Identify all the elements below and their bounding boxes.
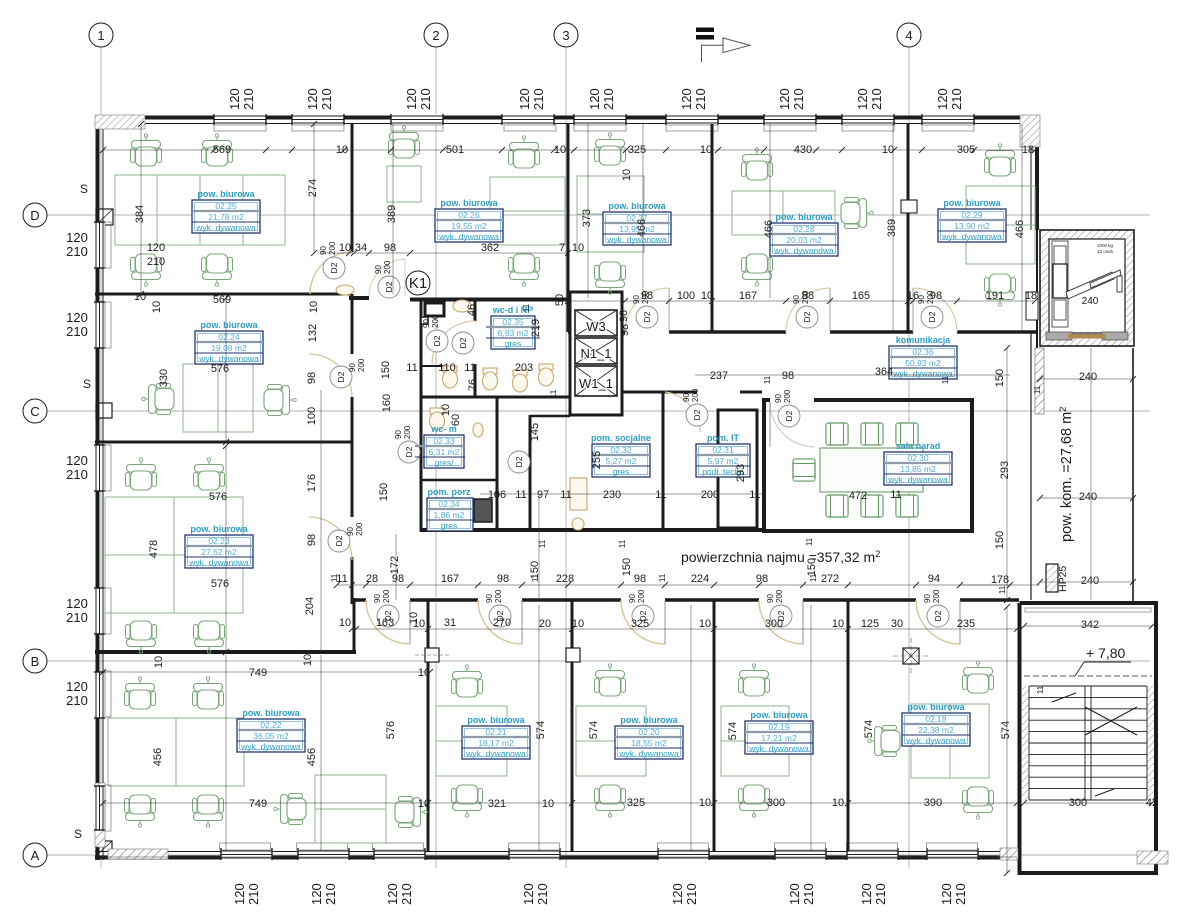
conf chair bottom 1 — [861, 495, 883, 517]
grid bubble 2 — [424, 23, 448, 47]
conf chair left — [793, 459, 815, 481]
pom. socjalne right wall — [662, 392, 665, 532]
svg-text:210: 210 — [418, 88, 433, 110]
chair 02.20 a — [595, 664, 626, 696]
desk group 02.24 — [183, 364, 253, 432]
conf chair top 1 — [861, 423, 883, 445]
door tag 02.20 door — [628, 589, 654, 627]
svg-text:94: 94 — [928, 573, 940, 585]
svg-text:574: 574 — [588, 721, 600, 739]
sink socjalne — [572, 518, 584, 530]
svg-text:210: 210 — [693, 88, 708, 110]
svg-text:11: 11 — [560, 489, 571, 501]
wall above 02.22 right leg — [353, 598, 356, 652]
comm right wall — [1132, 348, 1134, 604]
window bottom 7 — [847, 848, 898, 860]
sink lobby — [336, 285, 354, 295]
desk group 02.22 a — [108, 718, 244, 786]
svg-text:210: 210 — [66, 693, 88, 708]
svg-text:210: 210 — [601, 88, 616, 110]
sala narad walls — [764, 400, 972, 531]
elevator shaft walls — [1040, 230, 1134, 346]
desk group 02.29 — [966, 186, 1035, 264]
chair 02.26 b — [509, 254, 540, 286]
svg-text:240: 240 — [1079, 371, 1097, 383]
svg-text:S: S — [74, 827, 82, 841]
svg-text:330: 330 — [158, 369, 170, 387]
svg-text:5,97 m2: 5,97 m2 — [708, 456, 739, 466]
room label 02.30 — [884, 441, 952, 485]
corner hatch stair bottom right — [1137, 851, 1168, 864]
grid bubble 4 — [897, 23, 921, 47]
svg-text:98: 98 — [618, 310, 630, 322]
svg-text:389: 389 — [886, 219, 898, 237]
grid axis line C — [46, 410, 1150, 412]
svg-text:10: 10 — [621, 169, 633, 181]
svg-text:20,03 m2: 20,03 m2 — [786, 235, 822, 245]
chair 02.24 a — [142, 384, 174, 415]
comm strip hatch left — [1035, 348, 1044, 414]
svg-text:10: 10 — [302, 654, 314, 666]
svg-text:19,55 m2: 19,55 m2 — [451, 221, 487, 231]
svg-text:200: 200 — [383, 260, 392, 274]
svg-text:pow. biurowa: pow. biurowa — [197, 189, 255, 199]
svg-text:172: 172 — [389, 556, 401, 574]
svg-text:wyk. dywanowa: wyk. dywanowa — [240, 742, 301, 752]
corner hatch bottom-left vertical — [95, 783, 105, 847]
svg-text:120: 120 — [855, 88, 870, 110]
svg-text:K1: K1 — [409, 275, 427, 292]
chair 02.29 a — [985, 144, 1016, 176]
svg-text:11: 11 — [890, 489, 901, 501]
chair 02.26 c — [389, 126, 420, 158]
chair 02.22 b — [193, 677, 224, 709]
svg-text:10: 10 — [418, 798, 430, 810]
window bottom 2 — [298, 848, 349, 860]
svg-text:02.20: 02.20 — [638, 727, 660, 737]
svg-text:wyk. dywanowa: wyk. dywanowa — [188, 558, 249, 568]
wall wc-m|pom.porz — [421, 479, 497, 482]
chair 02.27 a — [595, 133, 626, 165]
sala narad door gap — [770, 396, 814, 404]
svg-text:98: 98 — [641, 290, 653, 302]
door tag wc-m — [394, 425, 420, 463]
svg-text:34: 34 — [355, 242, 367, 254]
svg-text:1: 1 — [97, 28, 104, 43]
chair 02.28 b — [742, 254, 773, 286]
conf chair bottom 2 — [896, 495, 918, 517]
svg-text:98: 98 — [782, 370, 794, 382]
chair 02.18 b — [963, 787, 994, 819]
svg-text:98: 98 — [384, 242, 396, 254]
svg-text:02.29: 02.29 — [961, 210, 983, 220]
svg-text:210: 210 — [869, 88, 884, 110]
north arrow — [696, 28, 750, 63]
door tag 02.22 door — [373, 589, 399, 627]
column 02.21 head — [566, 648, 580, 662]
corner hatch top-left — [95, 115, 145, 129]
svg-text:191: 191 — [986, 290, 1004, 302]
grid axis line A — [46, 854, 1150, 856]
svg-text:574: 574 — [727, 722, 739, 740]
door arc sala narad — [770, 402, 815, 447]
chair 02.27 b — [595, 262, 626, 294]
svg-text:384: 384 — [134, 205, 146, 223]
shaft W3 box — [575, 310, 617, 336]
svg-text:456: 456 — [152, 748, 164, 766]
svg-text:200: 200 — [932, 589, 941, 603]
room label 02.32 — [591, 433, 651, 477]
window top 3 — [391, 114, 443, 125]
K1 tag — [406, 271, 430, 295]
stair treads — [1029, 686, 1147, 800]
window top 5 — [666, 114, 718, 125]
svg-text:210: 210 — [66, 610, 88, 625]
chair 02.22 f — [395, 797, 427, 828]
wall 02.25 bottom — [95, 293, 352, 296]
grid bubble D — [23, 203, 47, 227]
conference table 02.30 — [820, 448, 923, 492]
door tag 02.27 — [632, 290, 658, 328]
svg-text:02.31: 02.31 — [712, 445, 734, 455]
urinal wc-m — [473, 423, 483, 437]
svg-text:D2: D2 — [458, 337, 468, 348]
svg-text:11: 11 — [809, 573, 818, 582]
svg-text:7: 7 — [559, 242, 565, 254]
chair 02.19 a — [739, 664, 770, 696]
partition 02.21|02.20 — [571, 600, 574, 851]
svg-text:210: 210 — [147, 256, 165, 268]
svg-text:325: 325 — [631, 618, 649, 630]
svg-text:120: 120 — [227, 88, 242, 110]
svg-text:150: 150 — [994, 369, 1006, 387]
svg-text:100: 100 — [306, 407, 318, 425]
svg-text:210: 210 — [323, 883, 338, 905]
wall wc-m right — [496, 397, 499, 532]
corner hatch stair bottom left — [1000, 848, 1018, 860]
svg-text:11: 11 — [805, 537, 814, 546]
svg-text:11: 11 — [549, 389, 558, 398]
svg-text:02.33: 02.33 — [433, 436, 455, 446]
svg-text:200: 200 — [494, 589, 503, 603]
svg-text:120: 120 — [679, 88, 694, 110]
chair 02.19 b — [739, 785, 770, 817]
chair 02.22 e — [274, 794, 306, 825]
svg-text:200: 200 — [691, 388, 700, 402]
corridor top wall segment b — [669, 330, 786, 334]
svg-text:wyk. dywanowa: wyk. dywanowa — [887, 475, 948, 485]
svg-text:237: 237 — [710, 370, 728, 382]
svg-text:31: 31 — [444, 617, 456, 629]
chair 02.23 d — [194, 621, 225, 653]
svg-text:wyk. dywanowa: wyk. dywanowa — [905, 736, 966, 746]
svg-text:749: 749 — [249, 798, 267, 810]
svg-text:pow. biurowa: pow. biurowa — [467, 715, 525, 725]
svg-text:120: 120 — [147, 242, 165, 254]
svg-text:200: 200 — [775, 589, 784, 603]
partition 02.24 right lower — [351, 397, 354, 517]
svg-text:106: 106 — [488, 489, 506, 501]
svg-text:574: 574 — [1000, 721, 1012, 739]
svg-text:komunikacja: komunikacja — [896, 335, 952, 345]
svg-text:HP25: HP25 — [1057, 566, 1069, 592]
svg-text:98: 98 — [756, 573, 768, 585]
svg-text:wyk. dywanowa: wyk. dywanowa — [195, 223, 256, 233]
svg-text:gres: gres — [441, 521, 458, 531]
svg-text:02.21: 02.21 — [485, 727, 507, 737]
pom. socjalne left wall — [529, 415, 532, 532]
svg-text:02.19: 02.19 — [768, 722, 790, 732]
svg-text:6,31 m2: 6,31 m2 — [429, 447, 460, 457]
svg-text:pom. socjalne: pom. socjalne — [591, 433, 651, 443]
stair level text +7.80 — [1075, 645, 1131, 676]
svg-text:100: 100 — [677, 290, 695, 302]
chair 02.23 c — [126, 621, 157, 653]
elevator car — [1052, 241, 1122, 327]
room label 02.26 — [435, 198, 503, 242]
desk group 02.27 — [577, 176, 644, 252]
section marker S top — [80, 182, 113, 225]
chair 02.21 a — [452, 665, 483, 697]
svg-text:210: 210 — [319, 88, 334, 110]
svg-text:90: 90 — [348, 363, 357, 372]
partition 02.24 right upper — [351, 294, 354, 354]
svg-text:110: 110 — [438, 362, 456, 374]
door tag 02.24 — [330, 358, 366, 388]
svg-text:240: 240 — [1081, 575, 1099, 587]
svg-text:90: 90 — [774, 394, 783, 403]
room label 02.19 — [745, 710, 813, 754]
svg-text:200: 200 — [637, 589, 646, 603]
svg-text:120: 120 — [66, 310, 88, 325]
window left 4 — [94, 588, 105, 634]
svg-text:10: 10 — [151, 301, 163, 313]
svg-text:98: 98 — [306, 372, 318, 384]
svg-text:120: 120 — [66, 453, 88, 468]
svg-text:120: 120 — [777, 88, 792, 110]
svg-text:219: 219 — [530, 319, 542, 337]
partition 02.28|02.29 — [907, 124, 910, 332]
svg-text:272: 272 — [821, 573, 839, 585]
svg-text:120: 120 — [66, 596, 88, 611]
svg-text:pow. biurowa: pow. biurowa — [943, 198, 1001, 208]
svg-text:wyk. dywanowa: wyk. dywanowa — [438, 232, 499, 242]
svg-text:160: 160 — [381, 394, 393, 412]
window left 3 — [94, 445, 105, 491]
door arc 02.21 — [478, 600, 522, 644]
svg-text:210: 210 — [66, 244, 88, 259]
svg-text:200: 200 — [783, 389, 792, 403]
svg-text:472: 472 — [849, 490, 867, 502]
window top 8 — [922, 114, 974, 125]
svg-text:210: 210 — [801, 883, 816, 905]
svg-text:sala narad: sala narad — [896, 441, 941, 451]
door tag 02.19 door — [766, 589, 792, 627]
toilet wc-m — [430, 408, 445, 430]
svg-text:1000 kg: 1000 kg — [1097, 243, 1114, 248]
window bottom 6 — [775, 848, 826, 860]
svg-text:D2: D2 — [692, 409, 702, 420]
window top 6 — [764, 114, 816, 125]
door arc 02.18 — [916, 600, 960, 644]
window bottom 1 — [221, 848, 272, 860]
window top 4 — [502, 114, 554, 125]
chair 02.24 b — [264, 385, 296, 416]
outer wall top — [95, 116, 1040, 120]
svg-text:18,55 m2: 18,55 m2 — [631, 738, 667, 748]
shaft outer box — [570, 292, 622, 415]
room label 02.31 — [696, 433, 750, 477]
svg-text:11: 11 — [406, 362, 417, 374]
svg-text:10: 10 — [701, 290, 713, 302]
svg-text:478: 478 — [148, 540, 160, 558]
room label 02.27 — [603, 201, 671, 245]
stair level dashed line — [1024, 675, 1152, 677]
svg-text:293: 293 — [735, 464, 747, 482]
svg-text:S: S — [80, 182, 88, 196]
svg-text:20: 20 — [539, 618, 551, 630]
partition 02.19|02.18 — [847, 600, 850, 851]
svg-text:90: 90 — [319, 246, 328, 255]
svg-text:02.26: 02.26 — [458, 210, 480, 220]
svg-text:10: 10 — [339, 617, 351, 629]
svg-text:98: 98 — [802, 290, 814, 302]
desk group 02.26 — [490, 177, 565, 245]
door tag 02.18 door — [923, 589, 949, 627]
svg-text:200: 200 — [355, 522, 364, 536]
room label 02.24 — [195, 320, 263, 364]
door tag 02.28 — [792, 290, 818, 328]
toilet wc-d 2 — [483, 368, 498, 390]
room label 02.34 — [427, 487, 473, 531]
svg-text:300: 300 — [765, 618, 783, 630]
svg-text:97: 97 — [537, 489, 549, 501]
column 02.19 head — [903, 648, 919, 664]
svg-text:S: S — [83, 377, 91, 391]
svg-text:210: 210 — [531, 88, 546, 110]
svg-text:02.32: 02.32 — [610, 445, 632, 455]
svg-text:76: 76 — [467, 379, 479, 391]
svg-text:255: 255 — [591, 451, 603, 469]
svg-text:pow. kom. =27,68 m2: pow. kom. =27,68 m2 — [1058, 407, 1075, 542]
corridor top wall segment c — [830, 330, 913, 334]
door arc 02.29 — [913, 288, 957, 332]
lower corridor wall segments — [352, 598, 366, 602]
chair 02.26 a — [509, 136, 540, 168]
svg-text:120: 120 — [404, 88, 419, 110]
svg-text:274: 274 — [307, 179, 319, 197]
chair 02.25 b — [202, 134, 233, 166]
room label 02.35 — [486, 305, 540, 349]
svg-text:10: 10 — [542, 798, 554, 810]
svg-text:178: 178 — [991, 574, 1009, 586]
kitchenette socjalne — [570, 478, 587, 510]
svg-text:D2: D2 — [329, 262, 339, 273]
room label 02.36 — [889, 335, 957, 379]
chair 02.25 c — [131, 254, 162, 286]
partition 02.23 right lower — [351, 557, 354, 604]
chair 02.23 a — [126, 458, 157, 490]
grid bubble A — [23, 843, 47, 867]
door arc 02.22b — [366, 600, 410, 644]
svg-text:pow. biurowa: pow. biurowa — [907, 702, 965, 712]
svg-text:2: 2 — [432, 28, 439, 43]
door tag 02.21 door — [485, 589, 511, 627]
svg-text:240: 240 — [1079, 491, 1097, 503]
grid bubble B — [23, 649, 47, 673]
door tag 02.29 — [917, 290, 943, 328]
svg-text:pow. biurowa: pow. biurowa — [775, 212, 833, 222]
svg-text:pow. biurowa: pow. biurowa — [242, 708, 300, 718]
sink wc-d — [453, 300, 471, 312]
window bottom 4 — [509, 848, 560, 860]
desk group 02.23 — [105, 497, 243, 613]
door arc 02.24 — [309, 354, 352, 397]
svg-text:50,93 m2: 50,93 m2 — [905, 358, 941, 368]
svg-text:30: 30 — [891, 618, 903, 630]
svg-text:11: 11 — [330, 573, 339, 582]
chair 02.18 a — [963, 661, 994, 693]
svg-text:11: 11 — [538, 539, 547, 548]
svg-text:150: 150 — [621, 558, 633, 576]
svg-text:210: 210 — [684, 883, 699, 905]
core bottom wall — [421, 528, 762, 532]
dimension ticks — [100, 121, 1155, 876]
svg-text:749: 749 — [249, 667, 267, 679]
svg-text:11: 11 — [1036, 685, 1045, 694]
chair 02.20 b — [595, 785, 626, 817]
svg-text:pow. biurowa: pow. biurowa — [200, 320, 258, 330]
svg-text:150: 150 — [378, 483, 390, 501]
door arc 02.27 — [625, 288, 669, 332]
svg-text:N1_1: N1_1 — [580, 346, 611, 361]
svg-text:wyk. dywanowa: wyk. dywanowa — [198, 354, 259, 364]
partition 02.20|02.19 — [713, 600, 716, 851]
svg-text:02.25: 02.25 — [215, 201, 237, 211]
svg-text:574: 574 — [863, 720, 875, 738]
grid axis line B — [46, 660, 1150, 662]
svg-text:90: 90 — [923, 594, 932, 603]
svg-text:120: 120 — [517, 88, 532, 110]
window left 2 — [94, 302, 105, 348]
svg-text:200: 200 — [357, 358, 366, 372]
svg-text:210: 210 — [949, 88, 964, 110]
desk group 02.18 — [911, 704, 989, 778]
svg-text:90: 90 — [485, 594, 494, 603]
svg-text:11: 11 — [515, 489, 526, 501]
sanitary core top wall — [410, 298, 570, 302]
elevator door sill — [1046, 332, 1128, 340]
svg-text:11: 11 — [941, 375, 950, 384]
sanitary core left wall — [420, 298, 423, 532]
svg-text:D: D — [30, 208, 39, 223]
svg-text:11: 11 — [655, 489, 666, 501]
svg-text:10: 10 — [153, 656, 165, 668]
svg-text:02.28: 02.28 — [793, 224, 815, 234]
svg-text:pow. biurowa: pow. biurowa — [440, 198, 498, 208]
pom. socjalne top wall — [530, 415, 570, 418]
grid bubble 1 — [89, 23, 113, 47]
svg-text:wyk. dywanowa: wyk. dywanowa — [618, 749, 679, 759]
svg-text:90: 90 — [632, 295, 641, 304]
svg-text:150: 150 — [380, 361, 392, 379]
door tag pom IT — [682, 388, 708, 426]
stair up arrows — [1052, 693, 1076, 702]
room label 02.25 — [192, 189, 260, 233]
svg-text:10: 10 — [418, 667, 430, 679]
corridor top wall segment d — [957, 330, 1037, 334]
window top 7 — [842, 114, 894, 125]
